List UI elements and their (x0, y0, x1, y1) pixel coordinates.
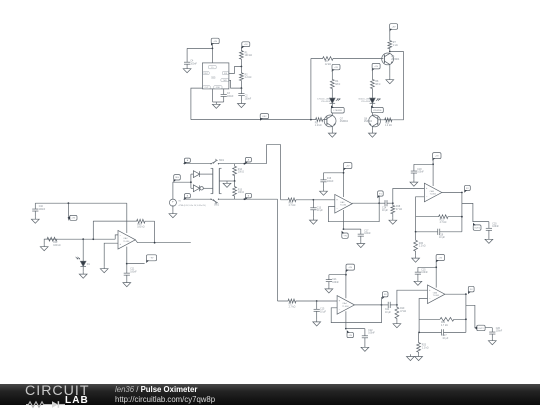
node C14/R18 (392, 202, 394, 204)
ground below R23 (415, 354, 423, 360)
ground for 555 (212, 102, 220, 108)
svg-text:100nF: 100nF (368, 333, 375, 335)
svg-text:R17: R17 (289, 304, 294, 306)
ground below C13 (310, 218, 318, 224)
wire 555 output bus (191, 119, 316, 121)
wire OA5 output (442, 192, 462, 194)
svg-text:TL084: TL084 (430, 194, 437, 196)
transistor Q8 2N3904 (364, 115, 381, 127)
capacitor C25 100nF (415, 267, 429, 279)
svg-text:+9V: +9V (213, 41, 217, 43)
node 555 V+ / bypass (212, 48, 214, 50)
resistor R5 1.2k (315, 118, 327, 128)
resistor R22 4.7k (419, 317, 466, 326)
wire plate to divider mid (219, 180, 234, 182)
svg-text:−9V: −9V (343, 236, 347, 238)
node fb C27 left (418, 332, 420, 334)
svg-text:2.2 kΩ: 2.2 kΩ (245, 77, 252, 79)
svg-text:+9V: +9V (374, 66, 378, 68)
svg-text:100nF: 100nF (327, 181, 334, 183)
ground below D1 (79, 272, 87, 278)
wire C15 node to OA4 plus (317, 300, 337, 302)
svg-text:C24: C24 (385, 309, 390, 311)
wire OA4 output (355, 304, 382, 306)
svg-text:C19: C19 (439, 234, 444, 236)
label for LED D2 (317, 98, 331, 103)
svg-text:SW1: SW1 (219, 160, 225, 162)
node OA2 V- label tap (126, 263, 128, 265)
node photodiode tap (82, 238, 84, 240)
ground floating (analog) (407, 354, 415, 360)
svg-text:100nF: 100nF (227, 96, 234, 98)
coupling plate right (219, 168, 221, 193)
wire OA5 bypass branch (414, 163, 433, 165)
wire Q6 emitter down (389, 64, 391, 77)
ground below R19 (393, 321, 401, 327)
svg-text:R22: R22 (441, 322, 446, 324)
wire LED1 to Q7 collector (331, 113, 333, 115)
svg-text:100nF: 100nF (364, 233, 371, 235)
svg-text:47 kΩ: 47 kΩ (396, 209, 402, 211)
wire OA3 V- to C17 (344, 228, 361, 230)
svg-text:100nF: 100nF (421, 272, 428, 274)
CircuitLab logo (25, 385, 95, 405)
wire LED2 to Q8 collector (371, 113, 373, 116)
svg-text:LTE-4208: LTE-4208 (321, 101, 331, 103)
svg-text:OUT2: OUT2 (478, 328, 484, 330)
ground below C26 (488, 338, 496, 344)
wire OA6 bypass branch (418, 266, 436, 268)
wire OA5 output down (461, 193, 463, 232)
wire OA2 V+ pin (126, 203, 128, 233)
wire OA6 output down (465, 294, 467, 332)
wire to bottom sensor diode (191, 187, 194, 189)
resistor R8 68 (371, 79, 381, 98)
wire VCC label to 555 V+ pin (211, 44, 213, 63)
ground below C25 (414, 279, 422, 285)
wire bottom rail left (183, 198, 211, 200)
wire OA6 output (445, 293, 466, 295)
svg-text:R20: R20 (419, 243, 424, 245)
wire OA2 supply rail (35, 202, 127, 204)
wire OA2 plus input to ground (104, 243, 118, 266)
svg-text:THR: THR (223, 80, 228, 82)
svg-text:555: 555 (211, 77, 216, 80)
net label OSC on output bus (260, 114, 269, 121)
svg-text:+9V: +9V (435, 155, 439, 157)
net label OA6 out (468, 286, 474, 294)
net label LED1 cathode (331, 105, 344, 113)
wire 555 DIS pin to R1/R2 node (229, 67, 242, 74)
transistor Q6 2N3904 (382, 53, 400, 65)
svg-text:100nF: 100nF (245, 98, 252, 100)
voltage source V5 (169, 199, 206, 207)
svg-text:OA5: OA5 (430, 190, 435, 193)
ground below C4 (183, 66, 191, 72)
svg-text:OA4: OA4 (342, 302, 347, 305)
svg-text:C26: C26 (496, 328, 501, 330)
svg-text:1.2 kΩ: 1.2 kΩ (419, 246, 426, 248)
photodiode D1 (76, 239, 91, 272)
net label bottom rail right (245, 193, 251, 200)
wire OA3 output (352, 202, 379, 204)
wire Q7 emitter down (331, 126, 333, 130)
wire LED pair anode bus (190, 174, 192, 188)
svg-text:C13: C13 (317, 207, 322, 209)
svg-text:68 Ω: 68 Ω (375, 84, 380, 86)
net label bottom rail left (184, 194, 190, 201)
svg-text:TL084: TL084 (123, 241, 130, 243)
svg-text:C10: C10 (39, 206, 44, 208)
node R2/C2/THR (241, 87, 243, 89)
resistor R23 1.2k (417, 332, 429, 354)
svg-text:C16: C16 (327, 178, 332, 180)
resistor R6 12k (311, 57, 383, 66)
wire top rail right (219, 163, 267, 165)
resistor R1 100k (240, 47, 253, 67)
svg-text:2N3904: 2N3904 (364, 121, 373, 123)
stub OA2 V- label (127, 263, 145, 265)
resistor R19 47k (395, 305, 406, 322)
capacitor C19 10uF (416, 229, 462, 240)
node R1/R2/DIS (241, 66, 243, 68)
ground below C18 (410, 180, 418, 186)
node OA5 output (461, 192, 463, 194)
svg-text:OSC: OSC (262, 116, 267, 118)
svg-text:+9V: +9V (438, 257, 442, 259)
resistor R2 2.2k (240, 67, 252, 89)
resistor R12 100k (44, 237, 61, 247)
ground below C10 (31, 217, 39, 223)
capacitor C16 100nF (320, 173, 334, 189)
svg-text:100nF: 100nF (39, 209, 46, 211)
wire Q8 emitter down (371, 126, 373, 130)
ground at R12 left (40, 244, 48, 250)
net label OA2 V- (146, 255, 156, 263)
ground Q6 emitter (386, 77, 394, 83)
svg-text:47 kΩ: 47 kΩ (400, 311, 406, 313)
svg-text:C22: C22 (368, 330, 373, 332)
svg-text:2N3904: 2N3904 (340, 121, 349, 123)
capacitor C21 100nF (326, 275, 340, 287)
svg-text:100nF: 100nF (496, 331, 503, 333)
resistor R15 100 (233, 181, 245, 199)
net label OA5 out (464, 185, 470, 192)
net label OA6 V+ (436, 255, 445, 263)
svg-text:100 Ω: 100 Ω (238, 172, 244, 174)
svg-text:+9V: +9V (346, 165, 350, 167)
wire OA2 output (135, 240, 190, 243)
svg-text:OA3: OA3 (340, 201, 345, 204)
wire V+ to bypass cap C4 (187, 47, 212, 49)
svg-text:2.7 kΩ: 2.7 kΩ (289, 306, 296, 308)
capacitor C10 100nF (32, 203, 46, 217)
node fb C19 left (415, 231, 417, 233)
IC U1 555 timer body (202, 63, 229, 89)
node OA6 bypass tap (435, 266, 437, 268)
node OA4 V- tap (345, 328, 347, 330)
svg-text:100 Ω: 100 Ω (238, 192, 244, 194)
net label OA3 V- (342, 231, 349, 239)
ground below C22 (361, 345, 369, 351)
svg-text:R18: R18 (396, 206, 401, 208)
op-amp OA6 TL084 (428, 285, 445, 304)
net label OA3 V+ (343, 163, 352, 171)
node OA3 output (378, 202, 380, 204)
svg-text:100nF: 100nF (492, 226, 499, 228)
wire OA3 V- pin down (343, 210, 345, 229)
ground below C2 (238, 101, 246, 107)
svg-text:+9V: +9V (71, 218, 75, 220)
transistor Q7 2N3904 (324, 115, 348, 127)
wire OA4 V+ pin (345, 270, 347, 298)
svg-text:1.2 kΩ: 1.2 kΩ (422, 347, 429, 349)
wire to top sensor diode (191, 173, 194, 175)
diode D5 (sensor bottom) (193, 185, 212, 192)
node OA3 V- tap (343, 228, 345, 230)
svg-text:10 µF: 10 µF (385, 312, 392, 314)
wire into OA2 minus input (115, 235, 118, 239)
svg-text:+9V: +9V (244, 44, 248, 46)
net label VCC (R1 top) (242, 42, 250, 49)
net label OUT2 (475, 325, 486, 331)
stub OA3 output label (378, 196, 380, 203)
wire OA2 V- pin down (126, 247, 128, 268)
svg-text:10 µF: 10 µF (317, 210, 324, 212)
svg-text:SIG: SIG (175, 177, 179, 179)
svg-text:2N3904: 2N3904 (391, 59, 400, 61)
wire C14 node to OA5 plus (393, 189, 425, 204)
node fb R22 right (465, 318, 467, 320)
node R16/C13 (313, 199, 315, 201)
wire top rail left (183, 163, 211, 165)
wire OA3 bypass branch (324, 172, 344, 174)
wire C24 node to OA6 plus (397, 290, 428, 305)
capacitor C13 10uF (310, 200, 323, 218)
wire Q6 collector to Q8 base column (390, 52, 404, 120)
wire OA4 V- to C22 (346, 328, 365, 330)
net label OA4 out (382, 292, 388, 299)
capacitor C20 100nF (486, 222, 500, 237)
ground below R18 (389, 218, 397, 224)
svg-text:LTE4208: LTE4208 (334, 110, 343, 112)
ground OA2 plus input (100, 266, 108, 272)
wire OA3 feedback loop (328, 203, 379, 222)
capacitor C26 100nF (489, 328, 503, 339)
capacitor C15 10uF (314, 301, 327, 320)
svg-text:C14: C14 (382, 207, 387, 209)
op-amp OA2 TL084 (118, 231, 135, 250)
wire 555 THR pin to R2/C2 node (229, 80, 242, 88)
ground below R20 (412, 256, 420, 262)
wire OA6 V+ pin (435, 261, 437, 288)
svg-text:R23: R23 (422, 345, 427, 347)
net label OA4 V+ (346, 264, 355, 272)
ground on sensor mid wire (223, 181, 231, 187)
node output bus / driver tap (310, 119, 312, 121)
resistor R21 4.7k (416, 215, 462, 224)
svg-text:C25: C25 (421, 269, 426, 271)
net label top rail right (245, 157, 251, 164)
svg-text:1 kΩ: 1 kΩ (393, 45, 398, 47)
net label supply Q6 (389, 24, 397, 32)
ground below C16 (320, 189, 328, 195)
wire upper output tap (462, 203, 489, 221)
svg-text:100nF: 100nF (417, 172, 424, 174)
net label supply LED2 (372, 63, 380, 71)
svg-text:2.7 kΩ: 2.7 kΩ (289, 205, 296, 207)
svg-text:1.2 kΩ: 1.2 kΩ (315, 125, 322, 127)
wire 555 OUT pin down-left (191, 88, 203, 120)
capacitor C3 100nF (221, 89, 234, 102)
switch SW1 (210, 159, 224, 165)
resistor R17 2.7k (278, 299, 317, 308)
node C24/R19 (396, 304, 398, 306)
node divider mid (234, 180, 236, 182)
svg-text:R21: R21 (440, 219, 445, 221)
resistor R14 100 (233, 164, 245, 181)
svg-text:OA6: OA6 (433, 292, 438, 295)
wire supply to R7 (389, 29, 391, 40)
node OA2 supply label tap (68, 202, 70, 204)
stub OA2 supply label (67, 203, 69, 220)
net label OUT1 (473, 223, 481, 231)
ground Q8 emitter (369, 131, 377, 137)
svg-text:12 kΩ: 12 kΩ (325, 64, 331, 66)
net label OA3 out (377, 191, 383, 198)
node OA2 output/feedback (154, 242, 156, 244)
svg-text:10 µF: 10 µF (320, 311, 327, 313)
wire R12 left stub (44, 239, 57, 244)
svg-text:R16: R16 (289, 202, 294, 204)
coupling plate left (211, 168, 213, 193)
node Q6 collector (389, 51, 391, 53)
svg-text:R19: R19 (400, 308, 405, 310)
node OA4 output (381, 304, 383, 306)
ground below C11 (123, 280, 131, 286)
resistor R4 68 (330, 79, 340, 98)
svg-text:GND: GND (216, 87, 221, 89)
wire driver tap up (310, 59, 312, 120)
wire OA6 minus input left (419, 299, 427, 333)
svg-text:100nF: 100nF (130, 271, 137, 273)
ground below C21 (325, 287, 333, 293)
svg-text:4.7 kΩ: 4.7 kΩ (440, 222, 447, 224)
wire bottom rail to lower filter input (277, 199, 279, 301)
wire GND pin to C3 branch (213, 101, 224, 103)
capacitor C22 100nF (362, 329, 376, 345)
node feedback tap (92, 238, 94, 240)
svg-text:+9V: +9V (392, 26, 396, 28)
svg-text:LTE-4206: LTE-4206 (361, 101, 371, 103)
svg-text:10 µF: 10 µF (382, 210, 389, 212)
wire 555 GND pin down (212, 89, 214, 102)
wire R12 to OA2 input (57, 238, 115, 240)
svg-text:R14: R14 (238, 169, 243, 171)
net label OA2 V+ (67, 215, 77, 220)
capacitor C14 10uF (379, 200, 393, 212)
capacitor C27 10uF (419, 329, 466, 340)
wire lower output tap (466, 305, 492, 327)
svg-text:−9V: −9V (150, 258, 154, 260)
resistor R16 2.7k (281, 198, 314, 207)
svg-text:68 Ω: 68 Ω (335, 84, 340, 86)
svg-text:−9V: −9V (348, 335, 352, 337)
capacitor C24 10uF (382, 302, 397, 314)
svg-text:C27: C27 (442, 335, 447, 337)
svg-text:OUT1: OUT1 (474, 227, 480, 229)
wire R13 to output (154, 221, 156, 243)
ground below V5 (169, 211, 177, 217)
svg-text:100 kΩ: 100 kΩ (53, 245, 61, 247)
wire OA4 bypass branch (329, 274, 346, 276)
svg-text:R13: R13 (137, 224, 142, 226)
wire OA4 feedback loop (331, 305, 381, 323)
svg-text:100 kΩ: 100 kΩ (245, 55, 253, 57)
wire OA4 V- pin down (345, 311, 347, 328)
capacitor C2 100nF (238, 88, 251, 101)
resistor R18 47k (391, 203, 402, 218)
svg-text:C17: C17 (364, 230, 369, 232)
resistor R13 100k (93, 219, 154, 228)
svg-text:1.2 kΩ: 1.2 kΩ (385, 125, 392, 127)
op-amp OA5 TL084 (424, 183, 441, 202)
footer text (115, 385, 215, 404)
wire top rail to upper filter input (266, 145, 280, 200)
wire cap C4 top stem (186, 48, 188, 60)
svg-text:4.7 kΩ: 4.7 kΩ (441, 325, 448, 327)
op-amp OA4 TL084 (337, 296, 354, 315)
resistor R20 1.2k (414, 232, 426, 256)
svg-text:C15: C15 (320, 309, 325, 311)
LED D2 1700nm LTE-4208 (330, 98, 341, 108)
svg-text:OA2: OA2 (123, 237, 128, 240)
svg-text:TL084: TL084 (340, 205, 347, 207)
node OA5 bypass tap (432, 163, 434, 165)
net label V5 node (174, 175, 181, 183)
capacitor C4 100nF (184, 60, 198, 66)
resistor R11 1.2k (378, 118, 393, 127)
svg-text:100nF: 100nF (190, 63, 197, 65)
svg-text:C18: C18 (417, 169, 422, 171)
capacitor C17 100nF (358, 229, 372, 241)
ground Q7 emitter (328, 131, 336, 137)
svg-text:TL084: TL084 (433, 295, 440, 297)
net label supply LED1 (332, 64, 340, 72)
svg-text:C20: C20 (492, 223, 497, 225)
net label LED2 cathode (371, 105, 383, 113)
ground below C15 (313, 320, 321, 326)
node R17/C15 (316, 300, 318, 302)
wire OA5 V+ pin (432, 159, 434, 186)
net label OA4 V- (347, 330, 354, 337)
wire OA3 V+ pin (343, 169, 345, 198)
svg-text:LTE4206: LTE4206 (373, 110, 382, 112)
label for LED D3 (359, 98, 371, 103)
net label top rail left (184, 158, 190, 165)
resistor R7 1k (388, 40, 398, 51)
svg-text:R12: R12 (53, 242, 58, 244)
net label OA5 V+ (432, 153, 441, 161)
node top rail label tap (244, 163, 246, 165)
svg-text:10 µF: 10 µF (442, 338, 449, 340)
wire label to R8 (371, 69, 373, 79)
node fb R21 right (461, 216, 463, 218)
ground below C17 (357, 241, 365, 247)
node bottom rail label tap (244, 198, 246, 200)
svg-text:100 kΩ: 100 kΩ (137, 227, 145, 229)
svg-text:+9V: +9V (348, 267, 352, 269)
